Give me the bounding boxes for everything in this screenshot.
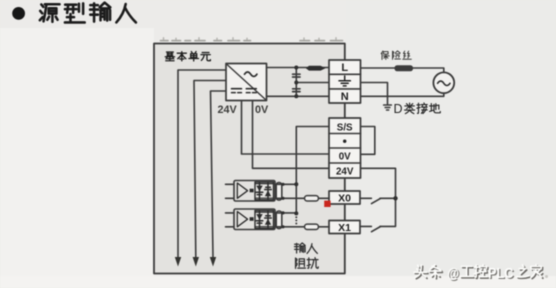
rail continuation dots	[295, 216, 297, 224]
right margin	[346, 0, 556, 288]
resistor R2	[305, 224, 319, 229]
LED indicator red	[324, 201, 330, 207]
capacitor across opto2	[276, 211, 282, 229]
wire opto1 top to rail	[274, 183, 297, 185]
lighter left margin	[0, 28, 154, 278]
wire 24V DC output down-left	[242, 101, 330, 155]
svg-text:24V: 24V	[336, 166, 354, 177]
power supply converter U1	[226, 64, 267, 101]
node column EMI filter	[295, 68, 297, 97]
wire PSU left pin1 to rail1	[178, 70, 226, 258]
wire PSU left pin3 to rail3	[211, 91, 227, 258]
svg-text:X1: X1	[338, 222, 351, 234]
wire X0 to switch	[360, 197, 396, 199]
node cap1 bottom	[281, 197, 284, 200]
wire opto2 bottom to resistor	[274, 226, 305, 228]
wire opto1 input stubs	[226, 184, 238, 198]
wire R1 to X0	[319, 197, 330, 199]
wire ground right to earth	[361, 83, 388, 105]
node N filter	[294, 94, 298, 98]
input arrow 1	[175, 257, 181, 267]
label 保险丝	[381, 51, 411, 60]
earth terminal symbol	[339, 76, 350, 86]
svg-text:D: D	[394, 102, 403, 116]
breaker arrow on L wire	[306, 66, 326, 71]
svg-text:@: @	[447, 266, 459, 282]
svg-text:X0: X0	[338, 192, 351, 204]
earth D-class ground bars	[384, 105, 392, 110]
label 输入阻抗	[294, 243, 318, 268]
wire 24V terminal to switches	[361, 168, 396, 226]
node rail opto2	[294, 211, 298, 215]
title 源型输入	[40, 3, 136, 23]
optocoupler PC1	[234, 181, 275, 202]
input arrow 2	[193, 257, 199, 267]
wire N: PSU right to N terminal	[267, 95, 330, 97]
svg-text:N: N	[341, 91, 349, 103]
optocoupler PC2	[234, 209, 275, 230]
resistor R1	[305, 196, 319, 201]
capacitor C2 bars	[293, 89, 300, 92]
node switch common	[393, 196, 397, 200]
wire opto2 input stubs	[226, 213, 238, 227]
wire ground to terminal	[296, 82, 329, 84]
wire L phase: PSU right to L terminal	[267, 67, 330, 69]
wire opto2 top to rail	[274, 212, 297, 214]
fuse F1	[395, 65, 414, 71]
wire opto1 bottom to resistor	[274, 197, 305, 199]
node cap2 top	[281, 211, 284, 214]
title bullet	[12, 7, 25, 20]
terminal strip L / earth / N	[329, 60, 361, 103]
capacitor C1 bars	[293, 74, 300, 77]
wire bracket S/S to 0V	[361, 127, 375, 155]
svg-text:PLC: PLC	[488, 265, 514, 282]
faint cropped text above box	[161, 38, 343, 41]
input arrow 3	[210, 257, 216, 267]
svg-text:0V: 0V	[339, 151, 351, 162]
node cap2 bottom	[281, 225, 284, 228]
terminal strip S/S 0V 24V	[329, 118, 361, 178]
main unit box 基本单元	[154, 44, 345, 274]
node earth filter	[294, 81, 298, 85]
label 基本单元	[165, 52, 210, 61]
wire PSU left pin2 to rail2	[194, 81, 226, 258]
switch SW1 lever	[372, 227, 381, 232]
svg-text:S/S: S/S	[337, 122, 353, 133]
AC source G1	[433, 72, 454, 93]
node rail opto1	[294, 182, 298, 186]
lighter bottom strip	[0, 276, 556, 288]
wire 0V DC output down-left	[253, 101, 330, 169]
capacitor across opto1	[276, 183, 282, 201]
watermark 头条@工控PLC之家	[415, 266, 543, 279]
wire S/S to opto rail	[296, 127, 329, 214]
switch SW0 lever	[372, 198, 381, 203]
terminal X0	[329, 191, 360, 204]
node cap1 top	[281, 183, 284, 186]
blank terminal dot	[343, 140, 346, 143]
wire R2 to X1	[319, 226, 330, 228]
node L filter	[294, 66, 298, 70]
junction dots	[281, 66, 397, 229]
svg-text:24V: 24V	[218, 104, 238, 116]
terminal X1	[329, 221, 360, 234]
wire fuse line L to AC source	[361, 68, 444, 72]
svg-text:L: L	[341, 62, 348, 74]
wire X1 to switch	[360, 225, 371, 227]
wire N right to AC source	[361, 93, 444, 96]
svg-text:0V: 0V	[255, 104, 269, 116]
